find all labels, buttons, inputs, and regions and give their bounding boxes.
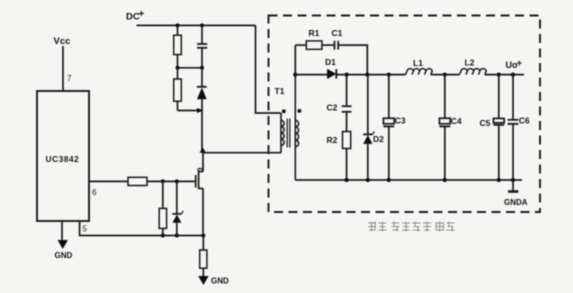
node rail junction at clamp capacitor [200, 23, 204, 27]
resistor R5 clamp [174, 35, 182, 54]
node bottom rail C4 junction [443, 178, 447, 182]
Uo+ output label [506, 58, 523, 70]
wire C2 branch upper [346, 75, 348, 106]
svg-text:GND: GND [211, 277, 229, 286]
node bottom rail C6 junction [511, 178, 515, 182]
node gate junction 1 [161, 179, 165, 183]
svg-text:+: + [517, 58, 523, 69]
node C3 tap [387, 73, 391, 77]
node B junction [197, 108, 204, 113]
capacitor C4 electrolytic [439, 118, 450, 180]
ground GND at source [198, 276, 208, 285]
svg-text:C6: C6 [519, 116, 530, 126]
svg-text:5: 5 [83, 225, 88, 234]
wire output bottom rail [295, 179, 522, 181]
node rail junction at clamp resistor [176, 23, 180, 27]
pin 7 label [67, 74, 72, 83]
svg-text:L2: L2 [465, 58, 475, 68]
node gate junction 2 [175, 179, 179, 183]
capacitor C2 [342, 106, 352, 112]
svg-text:D2: D2 [373, 134, 384, 144]
capacitor C3 electrolytic [383, 118, 394, 180]
svg-text:UC3842: UC3842 [46, 155, 80, 164]
svg-text:D1: D1 [325, 57, 336, 67]
node DC+ label [126, 9, 145, 23]
node source rail junction 2 [175, 234, 179, 238]
wire D2 to bottom rail [367, 144, 369, 180]
svg-text:T1: T1 [275, 86, 285, 96]
transformer T1 secondary winding [295, 75, 298, 180]
node secondary top junction [293, 73, 297, 77]
D1 label [325, 57, 336, 67]
diode D2 zener [363, 132, 374, 144]
C3 label [395, 116, 406, 126]
resistor R2 [343, 132, 351, 149]
wire C4 branch upper [444, 75, 446, 118]
wire gate resistor to MOSFET gate [147, 180, 196, 182]
node source rail junction 1 [161, 234, 165, 238]
wire L2 to output [485, 74, 524, 76]
C1 label [332, 28, 343, 38]
node Vcc label [54, 36, 71, 47]
op-amp U1 UC3842 controller box [37, 91, 89, 221]
diode D4 gate zener [172, 211, 183, 236]
wire C6 branch upper [512, 75, 514, 120]
resistor R1 [306, 41, 322, 49]
wire source to sense resistor [202, 236, 204, 251]
node C5 tap [497, 73, 501, 77]
svg-text:7: 7 [67, 74, 72, 83]
transistor Q1 MOSFET [196, 153, 203, 236]
svg-text:+: + [139, 9, 145, 20]
node C2 tap [345, 73, 349, 77]
wire node B down to drain node [201, 111, 203, 153]
ground GND under U1 [58, 240, 69, 249]
D2 label [373, 134, 384, 144]
wire D1 to L1 [336, 74, 405, 76]
wire DC+ rail [137, 24, 256, 26]
wire rail to clamp capacitor [201, 25, 203, 43]
R2 label [327, 135, 338, 145]
transformer T1 primary phasing dot [282, 110, 286, 113]
svg-text:L1: L1 [413, 58, 423, 68]
svg-text:GND: GND [55, 251, 73, 260]
wire snubber to R1 [295, 44, 306, 46]
transformer T1 core [287, 119, 290, 148]
GND label under U1 [55, 251, 73, 260]
wire U1 ground pin [61, 221, 63, 240]
node snubber and D2 tap [365, 73, 369, 77]
caption 输出整流滤波电路 (drawn as faux glyph strokes) [368, 222, 455, 232]
svg-text:C2: C2 [327, 103, 338, 113]
svg-text:Vcc: Vcc [54, 36, 71, 47]
R1 label [309, 28, 320, 38]
svg-text:R2: R2 [327, 135, 338, 145]
wire sense resistor to ground [202, 268, 204, 276]
wire bleeder to node B [177, 101, 179, 110]
wire Vcc to pin 7 [62, 46, 64, 91]
transformer T1 label [275, 86, 285, 96]
svg-text:C1: C1 [332, 28, 343, 38]
node C6 tap [511, 73, 515, 77]
L1 label [413, 58, 423, 68]
wire C1 to snubber right corner [338, 45, 367, 75]
wire C2 to R2 [346, 112, 348, 132]
svg-text:6: 6 [92, 188, 97, 197]
capacitor C5 electrolytic [493, 118, 504, 180]
wire rail to clamp resistor [177, 25, 179, 35]
dashed output filter box [269, 16, 541, 213]
L2 label [465, 58, 475, 68]
pin 6 label [92, 188, 97, 197]
capacitor C7 clamp [197, 44, 207, 68]
svg-text:R1: R1 [309, 28, 320, 38]
node B wire [178, 110, 203, 112]
pin 6 wire gate drive [89, 180, 128, 182]
wire C3 branch upper [388, 75, 390, 118]
wire drain node to transformer primary bottom [202, 152, 281, 154]
ground GNDA symbol [508, 180, 518, 192]
node A junction right [200, 66, 204, 70]
diode D1 rectifier [328, 69, 337, 78]
GND label at source [211, 277, 229, 286]
resistor R6 bleeder [174, 79, 182, 101]
diode D3 clamp [197, 68, 207, 111]
C6 label [519, 116, 530, 126]
svg-text:C3: C3 [395, 116, 406, 126]
transformer T1 primary winding [281, 113, 284, 153]
svg-text:C5: C5 [480, 118, 491, 128]
wire to gate zener [176, 181, 178, 213]
wire R1 to C1 [322, 44, 334, 46]
node drain junction arrow [200, 148, 207, 153]
capacitor C6 [508, 120, 519, 180]
wire L1 to L2 [431, 74, 460, 76]
inductor L2 [460, 69, 487, 75]
inductor L1 [406, 69, 433, 75]
pin 5 wire down from box [80, 221, 204, 236]
wire R2 to bottom rail [346, 149, 348, 181]
node bottom rail D2 junction [366, 178, 370, 182]
svg-text:C4: C4 [451, 116, 462, 126]
node bottom rail C5 junction [497, 178, 501, 182]
wire clamp resistor to node A [177, 55, 179, 68]
svg-text:GNDA: GNDA [504, 198, 528, 207]
wire C5 branch upper [498, 75, 500, 119]
U1 label UC3842 [46, 155, 80, 164]
wire secondary node up to snubber [294, 45, 296, 75]
wire D2 branch upper [367, 75, 369, 134]
node A junction left [176, 66, 180, 70]
C2 label [327, 103, 338, 113]
wire to gate pulldown resistor [162, 181, 164, 208]
C4 label [451, 116, 462, 126]
pin 5 label [83, 225, 88, 234]
resistor R3 gate series [128, 177, 147, 185]
wire pulldown to rail [162, 228, 164, 235]
GNDA label [504, 198, 528, 207]
C5 label [480, 118, 491, 128]
node bottom rail C3 junction [387, 178, 391, 182]
node C4 tap [443, 73, 447, 77]
resistor R7 current sense [200, 250, 207, 268]
resistor R4 gate pulldown [159, 208, 166, 228]
wire node A to bleeder resistor [177, 68, 179, 79]
wire secondary node to D1 [295, 74, 328, 76]
transformer T1 secondary phasing dot [298, 109, 302, 112]
node source rail junction 3 [201, 234, 205, 238]
capacitor C1 [335, 41, 339, 50]
node A wire [178, 67, 203, 69]
wire rail corner down to primary top [256, 25, 282, 113]
node bottom rail C2 junction [345, 178, 349, 182]
